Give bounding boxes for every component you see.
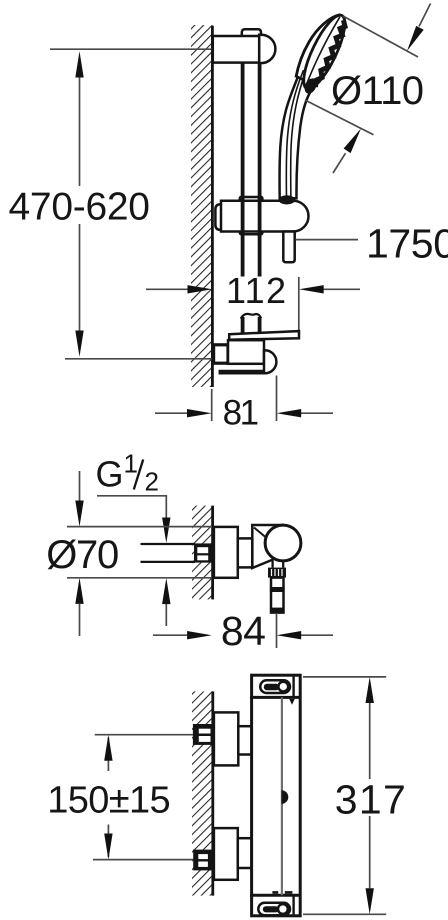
thermostat body — [252, 675, 301, 916]
dim line 470-620 — [79, 77, 81, 186]
svg-text:G: G — [96, 454, 124, 495]
wall hatch — [191, 25, 213, 387]
dia 110 arrow upper — [419, 4, 431, 27]
middle block — [238, 538, 253, 567]
holder bottom dip — [240, 232, 263, 235]
top bracket body — [213, 36, 259, 63]
SECTION 2 : shower valve — [46, 449, 333, 655]
dia70 ext line top — [67, 526, 212, 528]
wall face line — [211, 691, 214, 895]
ext line 84 right — [276, 613, 278, 648]
dim 150+-15 — [107, 738, 109, 772]
dia 110 arrow lower — [333, 153, 346, 173]
inlet neck lower — [238, 838, 252, 868]
inlet escutcheon lower — [214, 828, 238, 880]
supply pipe lower — [93, 859, 199, 861]
wall face line — [211, 26, 214, 387]
supply pipe lines — [141, 543, 196, 545]
wall union — [194, 543, 212, 562]
hose nut — [268, 568, 286, 578]
face bottom blob — [302, 76, 319, 95]
rail tube stub — [241, 317, 245, 333]
svg-text:112: 112 — [226, 270, 286, 311]
SECTION 1 : shower rail set — [9, 4, 448, 433]
dia 110 tangent line upper — [343, 16, 418, 57]
svg-text:470-620: 470-620 — [9, 185, 151, 228]
soap dish plate — [229, 331, 299, 340]
holder clamp bump — [240, 197, 263, 201]
wall hatch — [192, 506, 213, 600]
dim 81 — [155, 412, 187, 414]
SECTION 3 : thermostat — [47, 675, 406, 916]
wall face line — [211, 506, 214, 600]
svg-text:317: 317 — [335, 777, 406, 823]
handle seam lines — [286, 70, 303, 198]
dia70 lower arrow — [79, 604, 81, 636]
ext line 81 left — [211, 389, 213, 421]
marker triangle — [289, 699, 295, 705]
supply pipe upper — [95, 734, 199, 736]
bottom ticks — [272, 891, 278, 894]
hand shower handle — [280, 77, 314, 198]
ext line top (470-620) — [50, 48, 212, 50]
rail tube through holder — [241, 198, 245, 277]
arrow up (470-620) — [75, 51, 83, 77]
shower head face — [294, 10, 352, 97]
right lower arrow — [165, 604, 167, 626]
cap inner line bottom — [292, 895, 294, 916]
svg-text:81: 81 — [223, 394, 260, 433]
ext line 81 right — [276, 376, 278, 422]
top bracket end cap — [259, 35, 275, 63]
rail tube upper — [241, 63, 245, 201]
dim 112 — [146, 288, 188, 290]
ext line 112 right — [298, 277, 300, 333]
dia70 ext line bottom — [67, 577, 212, 579]
glide holder left tab — [215, 204, 236, 230]
ext line bottom (470-620) — [65, 358, 212, 360]
svg-text:Ø110: Ø110 — [331, 69, 424, 113]
svg-text:2: 2 — [145, 467, 159, 497]
rail tube break wave — [241, 314, 261, 319]
front face line — [281, 697, 283, 895]
outlet tube — [271, 578, 284, 613]
bottom cap slot — [258, 903, 290, 915]
svg-text:150±15: 150±15 — [47, 780, 171, 822]
spray zigzag — [312, 20, 350, 88]
outlet neck — [271, 559, 273, 568]
escutcheon — [214, 527, 238, 578]
svg-text:1750: 1750 — [366, 221, 448, 267]
knob circle — [265, 525, 301, 561]
top cap slot — [260, 680, 290, 693]
inlet escutcheon upper — [214, 712, 238, 765]
cap divider top — [250, 696, 300, 699]
G1/2 leader elbow — [97, 496, 166, 518]
svg-text:1: 1 — [124, 449, 138, 479]
dim 317 — [303, 676, 386, 678]
wall hatch — [192, 691, 213, 895]
dim 84 — [153, 634, 187, 636]
arrow down (470-620) — [75, 331, 83, 357]
bottom bracket wall stub — [214, 345, 228, 363]
dia 110 tangent line lower — [305, 100, 374, 135]
svg-text:Ø70: Ø70 — [46, 533, 119, 577]
svg-text:84: 84 — [221, 608, 266, 654]
bottom bracket lower capsule — [220, 350, 277, 373]
leader 1750 — [296, 239, 359, 241]
cap divider bottom — [250, 894, 300, 897]
union upper — [193, 724, 212, 745]
hose nipple — [283, 232, 294, 263]
cap inner line top — [292, 675, 294, 697]
dia70 upper arrow — [79, 471, 81, 501]
handle end dark cap — [279, 195, 296, 204]
bottom bracket body — [228, 340, 264, 364]
face seam line — [306, 16, 340, 84]
glide holder main body — [221, 201, 309, 232]
temp D-mark — [282, 790, 289, 804]
valve body wedge — [252, 525, 284, 568]
union lower — [193, 850, 212, 871]
top bracket knob — [242, 29, 261, 36]
inlet neck upper — [238, 726, 251, 754]
head outer rim — [296, 15, 341, 78]
